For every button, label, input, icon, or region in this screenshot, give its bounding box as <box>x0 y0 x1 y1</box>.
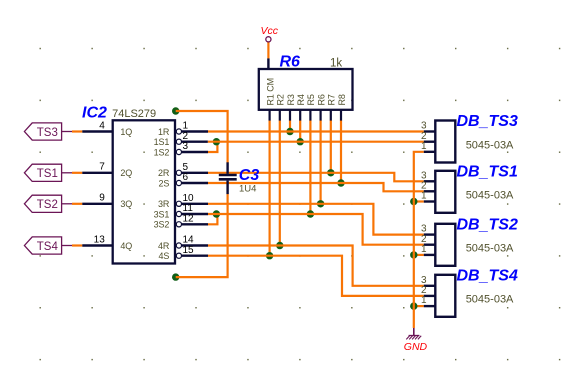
junction GND rail TS2 <box>410 251 417 258</box>
svg-text:1S1: 1S1 <box>154 137 170 147</box>
svg-text:1: 1 <box>421 141 427 152</box>
svg-text:R3: R3 <box>286 94 296 105</box>
connector DB_TS1 box <box>435 171 455 213</box>
svg-text:13: 13 <box>94 234 106 245</box>
pin 7 (2Q) <box>82 172 112 174</box>
pin 12 (3S2) <box>176 222 181 227</box>
junction 1S join <box>213 138 220 145</box>
R6 pin R5 <box>309 110 311 121</box>
svg-text:5045-03A: 5045-03A <box>466 294 514 306</box>
pin 10 (3R) <box>176 201 181 206</box>
svg-text:DB_TS2: DB_TS2 <box>457 216 518 233</box>
R6 pin R3 <box>289 110 291 121</box>
junction VCC stub <box>172 107 179 114</box>
pin 11 (3S1) <box>176 211 181 216</box>
wire TS4 to IC pin 13 <box>72 244 82 246</box>
svg-text:2R: 2R <box>158 168 170 178</box>
wire R2 pullup vertical <box>279 120 281 245</box>
svg-text:R2: R2 <box>276 94 286 105</box>
svg-text:9: 9 <box>99 193 105 204</box>
svg-text:1Q: 1Q <box>120 127 132 137</box>
svg-text:DB_TS4: DB_TS4 <box>457 267 518 284</box>
pin 15 (4S) <box>176 253 181 258</box>
wire 3S2 elbow <box>208 214 217 224</box>
resistor network R6 box <box>259 69 353 110</box>
wire VCC stub to C3 top <box>176 111 228 163</box>
wire R3 pullup vertical <box>289 120 291 131</box>
junction GND stub <box>172 273 179 280</box>
DB_TS3 pin 3 <box>424 130 436 132</box>
wire R7 pullup vertical <box>330 120 332 172</box>
wire 3R net to DB_TS2 pin3 <box>208 204 424 235</box>
svg-text:4R: 4R <box>158 241 170 251</box>
R6 pin R7 <box>330 110 332 121</box>
svg-text:1: 1 <box>421 244 427 255</box>
wire R1 pullup vertical <box>269 120 271 255</box>
wire 1S net horizontal <box>208 141 424 143</box>
R6 pin R2 <box>279 110 281 121</box>
connector DB_TS4 box <box>435 275 455 317</box>
R6 top pin to Vcc <box>267 58 269 69</box>
svg-text:1R: 1R <box>158 127 170 137</box>
wire 4R net to DB_TS4 pin3 <box>208 246 424 286</box>
wire GND rail <box>414 152 424 328</box>
wire 1R net horizontal <box>208 130 424 132</box>
wire TS3 to IC pin 4 <box>72 130 82 132</box>
svg-text:1k: 1k <box>330 58 342 70</box>
wire Vcc drop <box>267 42 269 59</box>
svg-text:R6: R6 <box>316 94 326 105</box>
svg-text:1: 1 <box>421 191 427 202</box>
wire 3S net to DB_TS2 pin2 <box>208 214 424 245</box>
svg-text:2Q: 2Q <box>120 168 132 178</box>
junction R1-4S <box>266 252 273 259</box>
wire R4 pullup vertical <box>299 120 301 141</box>
svg-text:R6: R6 <box>280 54 301 71</box>
svg-text:5045-03A: 5045-03A <box>466 139 514 151</box>
wire GND rail stub DB_TS1 pin1 <box>414 200 424 202</box>
pin 1 (1R) <box>176 129 181 134</box>
DB_TS4 pin 2 <box>424 295 436 297</box>
R6 pin R1 CM <box>269 110 271 121</box>
svg-text:3: 3 <box>183 141 189 152</box>
pin 2 (1S1) <box>176 139 181 144</box>
pin 4 (1Q) <box>82 130 112 132</box>
svg-text:TS4: TS4 <box>37 241 59 253</box>
svg-text:R7: R7 <box>327 94 337 105</box>
svg-text:R8: R8 <box>337 94 347 105</box>
wire GND stub to C3 bottom <box>176 194 228 278</box>
svg-text:6: 6 <box>183 172 189 183</box>
DB_TS3 pin 1 <box>424 151 436 153</box>
R6 pin R6 <box>320 110 322 121</box>
wire TS2 to IC pin 9 <box>72 203 82 205</box>
junction GND rail TS1 <box>410 198 417 205</box>
R6 pin R8 <box>340 110 342 121</box>
svg-text:TS1: TS1 <box>37 168 58 180</box>
power port Vcc <box>266 37 271 42</box>
svg-text:R1 CM: R1 CM <box>265 78 275 106</box>
pin 5 (2R) <box>176 170 181 175</box>
DB_TS2 pin 3 <box>424 233 436 235</box>
svg-text:DB_TS3: DB_TS3 <box>457 113 518 130</box>
IC IC2 74LS279 body <box>113 120 175 263</box>
connector TS3 <box>24 123 61 140</box>
connector TS4 <box>24 237 61 254</box>
svg-text:15: 15 <box>183 245 195 256</box>
junction R2-4R <box>276 242 283 249</box>
svg-text:1: 1 <box>421 295 427 306</box>
svg-text:3S2: 3S2 <box>154 220 170 230</box>
DB_TS1 pin 2 <box>424 190 436 192</box>
wire R5 pullup vertical <box>309 120 311 214</box>
svg-text:2S: 2S <box>158 178 169 188</box>
wire R8 pullup vertical <box>340 120 342 183</box>
connector TS1 <box>24 164 61 181</box>
svg-text:74LS279: 74LS279 <box>112 108 156 120</box>
wire GND rail stub DB_TS4 pin1 <box>414 305 424 307</box>
junction R4-1S <box>297 138 304 145</box>
svg-text:IC2: IC2 <box>82 105 107 122</box>
svg-text:3Q: 3Q <box>120 199 132 209</box>
DB_TS2 pin 2 <box>424 243 436 245</box>
svg-text:TS3: TS3 <box>37 127 58 139</box>
svg-text:7: 7 <box>99 162 105 173</box>
DB_TS3 pin 2 <box>424 140 436 142</box>
svg-text:DB_TS1: DB_TS1 <box>457 163 518 180</box>
junction R6-3R <box>317 200 324 207</box>
junction R3-1R <box>286 128 293 135</box>
junction GND rail TS4 <box>410 302 417 309</box>
svg-text:R5: R5 <box>306 94 316 105</box>
svg-text:12: 12 <box>183 214 195 225</box>
junction R8-2S <box>337 179 344 186</box>
wire GND rail stub DB_TS2 pin1 <box>414 254 424 256</box>
wire 4S net to DB_TS4 pin2 <box>208 256 424 296</box>
R6 pin R4 <box>299 110 301 121</box>
svg-text:5045-03A: 5045-03A <box>466 243 514 255</box>
svg-text:1S2: 1S2 <box>154 147 170 157</box>
pin 14 (4R) <box>176 243 181 248</box>
svg-text:3S1: 3S1 <box>154 209 170 219</box>
svg-text:TS2: TS2 <box>37 199 58 211</box>
svg-text:C3: C3 <box>239 167 260 184</box>
svg-text:1U4: 1U4 <box>239 183 256 194</box>
wire 2R net to DB_TS1 pin3 <box>208 173 424 182</box>
pin 6 (2S) <box>176 180 181 185</box>
junction 3S join <box>213 210 220 217</box>
DB_TS2 pin 1 <box>424 254 436 256</box>
svg-text:Vcc: Vcc <box>261 25 279 37</box>
svg-text:5045-03A: 5045-03A <box>466 190 514 202</box>
wire TS1 to IC pin 7 <box>72 172 82 174</box>
svg-text:GND: GND <box>404 341 428 353</box>
DB_TS1 pin 1 <box>424 200 436 202</box>
connector TS2 <box>24 195 61 212</box>
svg-text:3R: 3R <box>158 199 170 209</box>
connector DB_TS2 box <box>435 224 455 266</box>
wire 2S net to DB_TS1 pin2 <box>208 183 424 191</box>
junction R5-3S <box>307 210 314 217</box>
svg-text:4S: 4S <box>158 251 169 261</box>
pin 3 (1S2) <box>176 149 181 154</box>
pin 13 (4Q) <box>82 244 112 246</box>
DB_TS4 pin 3 <box>424 285 436 287</box>
wire 1S2 elbow <box>208 142 217 152</box>
wire R6 pullup vertical <box>320 120 322 203</box>
DB_TS1 pin 3 <box>424 180 436 182</box>
svg-text:R4: R4 <box>296 94 306 105</box>
pin 9 (3Q) <box>82 203 112 205</box>
svg-text:4Q: 4Q <box>120 241 132 251</box>
connector DB_TS3 box <box>435 121 455 163</box>
ground symbol <box>413 328 415 336</box>
junction R7-2R <box>327 169 334 176</box>
DB_TS4 pin 1 <box>424 305 436 307</box>
capacitor C3 <box>226 162 228 174</box>
svg-text:4: 4 <box>99 120 105 131</box>
